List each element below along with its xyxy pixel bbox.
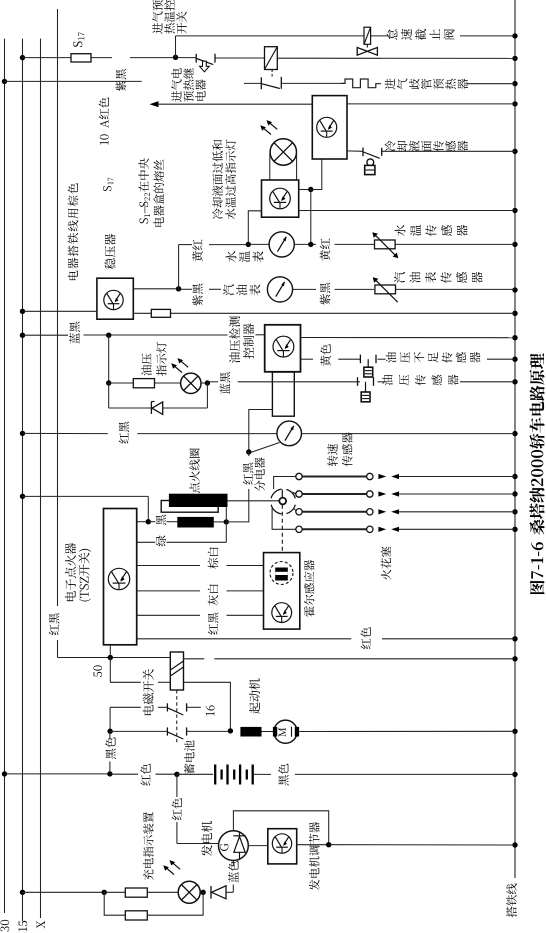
- charge indicator lamp: [163, 860, 200, 903]
- wire heater line with relay contact: [244, 82, 515, 84]
- wire generator to regulator: [248, 845, 267, 847]
- label generator regulator (fa-dian-ji-tiao-jie-qi): [309, 822, 320, 890]
- label S17 (central fuse box): [103, 178, 113, 191]
- wire coil HT output to distributor rotor: [228, 500, 280, 502]
- wire bus X (rail): [40, 39, 42, 918]
- wire generator B+ up and over to output junction: [233, 811, 328, 845]
- wire 10A feed stub from bus 30: [2, 79, 142, 84]
- label yellow-red (huang-hong): [192, 239, 203, 261]
- wire fuel gauge line: [179, 288, 515, 290]
- label black 2 (hei-se): [278, 764, 289, 786]
- label green (lv): [156, 535, 167, 546]
- wire igniter to hall sensor 3 (red-black): [137, 614, 264, 616]
- label 15: [19, 921, 28, 931]
- wire tach slant to distributor junction: [246, 443, 279, 455]
- label 30: [0, 920, 9, 932]
- label yellow-red 2 inline (huang-hong): [320, 238, 331, 260]
- wire ignition switch to ground rail (with gap): [184, 658, 516, 660]
- label electronic igniter TSZ (2 lines): [65, 543, 91, 602]
- distributor rotor: [279, 498, 286, 505]
- wire K2 right to junction and K1: [299, 159, 322, 244]
- relay contact of preheat relay: [261, 77, 281, 89]
- wire bus 15 (rail): [22, 39, 24, 921]
- label solenoid switch (dian-ci-kai-guan): [143, 669, 154, 715]
- wire oil lamp line through plug to oil pressure sensor: [207, 381, 515, 383]
- wire battery junction down to generator (red): [177, 774, 219, 843]
- label speed sensor (2 lines): [327, 432, 352, 466]
- label purple-black 3 inline (zi-hei): [320, 283, 331, 305]
- ignition coil body (outlined): [161, 501, 218, 513]
- label 50: [93, 665, 102, 677]
- solenoid contact 2 on starter feed: [107, 727, 230, 739]
- wire battery line with inline label red (hong-se): [110, 772, 213, 777]
- dashed actuation link relay to contact: [271, 70, 273, 79]
- wire igniter to hall sensor 1 (brown-white): [137, 565, 264, 567]
- hall amplifier symbol: [272, 603, 292, 623]
- wire lamp to diode junction: [200, 890, 206, 895]
- wire controller output B (yellow) to oil-low sensor: [301, 358, 516, 360]
- caption: Fig 7-1-6 Santana 2000 circuit diagram: [529, 353, 544, 594]
- label oil pressure indicator lamp (2 lines): [141, 342, 166, 376]
- lamp socket wires to monitor unit: [270, 153, 297, 180]
- generator G with diode: [219, 831, 249, 861]
- solenoid contact 1 with terminal 16: [110, 703, 201, 731]
- spark plug wire 3: [294, 509, 515, 516]
- wire water temp gauge line: [179, 242, 515, 247]
- wire starter jog from switch: [184, 682, 231, 731]
- label S1-S22 are fuses in central electric box (2 lines): [138, 158, 164, 226]
- label spark plugs (huo-hua-sai): [381, 546, 392, 580]
- wire green line from igniter: [137, 522, 227, 542]
- label black (hei): [156, 515, 166, 526]
- wire red-black down to ignition coil: [248, 452, 250, 523]
- spark plug wire 1: [274, 473, 515, 489]
- wire lamp to junction dot: [201, 380, 210, 385]
- wire controller output A to ground rail: [301, 337, 516, 339]
- indicator lamp coolant low / temp high: [260, 120, 296, 165]
- wire controller plug jog down to distributor line: [249, 410, 273, 453]
- label idle cutoff valve (dai-su-jie-zhi-fa): [387, 29, 455, 40]
- wire regulator output to ground rail: [297, 842, 515, 847]
- wire idle cutoff valve line: [176, 35, 516, 37]
- starter motor M: [262, 720, 516, 743]
- label intake manifold preheater: [385, 79, 468, 90]
- ignition coil primary winding (black bar): [169, 494, 228, 507]
- label purple-black 2 (zi-hei): [192, 284, 203, 306]
- dashed distributor shaft axis: [281, 490, 283, 553]
- label yellow (huang-se): [320, 344, 331, 366]
- label battery (xu-dian-chi): [184, 740, 195, 774]
- resistor 1 of charge indicator: [125, 888, 178, 897]
- ignition switch box with slashes: [170, 652, 183, 690]
- relay coil of intake preheat relay: [265, 47, 278, 70]
- label black (hei-se): [105, 737, 116, 759]
- fuel gauge: [267, 277, 292, 302]
- wire from junction down and right into switch (gap at label): [110, 658, 170, 683]
- label coolant level too low and water temp too high indicator lamp (2 lines): [212, 140, 236, 220]
- label intake preheat temp control switch (3 lines): [152, 0, 187, 34]
- oil pressure detect controller box: [265, 325, 301, 372]
- wire coil secondary to junction: [214, 507, 229, 525]
- label 10 A red (10A hong-se): [99, 97, 109, 144]
- wire battery to ground rail with label black: [253, 773, 515, 775]
- label water temp gauge (shui-wen-biao): [226, 251, 264, 262]
- wire bus 30 (rail): [4, 39, 6, 913]
- connector plug under controller: [272, 372, 294, 416]
- water temp sensor (variable resistor): [372, 232, 398, 258]
- label starter (qi-dong-ji): [249, 678, 260, 713]
- electronic igniter box: [104, 509, 137, 645]
- label use brown for appliance ground wires: [68, 183, 79, 280]
- wire stabilizer output to gauges junction: [133, 245, 181, 292]
- label red 2 (hong-se): [172, 798, 182, 820]
- junction bus50 to ignition switch: [108, 645, 113, 660]
- junction starter feed: [228, 728, 233, 733]
- relay unit K coolant level/temp monitor: [312, 96, 347, 159]
- label fuel gauge (qi-you-biao) inline: [223, 284, 261, 295]
- label red (hong-se) on igniter ground line: [360, 627, 370, 649]
- label red (hong-se): [140, 764, 150, 786]
- label oil pressure insufficient sensor: [386, 352, 481, 363]
- tachometer gauge: [277, 421, 302, 446]
- arrow continuation to coolant-monitor relay (10A red wire): [150, 101, 516, 107]
- intake preheat temperature control switch contact: [196, 54, 215, 72]
- wire bus15 to stabilizer: [20, 309, 97, 314]
- voltage stabilizer box: [97, 278, 133, 319]
- voltage regulator box: [268, 829, 297, 864]
- label S17: [73, 32, 84, 47]
- wire vertical with inline label black (hei-se): [107, 731, 112, 776]
- wire igniter terminal to coil (black): [137, 519, 178, 524]
- label X: [37, 921, 45, 929]
- resistor 2 parallel loop: [104, 892, 203, 920]
- label intake electric preheat relay (3 lines): [171, 68, 206, 102]
- wire bus 50 (rail with inline label): [58, 9, 171, 658]
- label hall sensor (huo-er-gan-ying-qi): [304, 560, 315, 617]
- label voltage stabilizer (wen-ya-qi): [105, 234, 116, 269]
- junction dots on ground rail: [512, 33, 517, 848]
- resistor of oil pressure lamp: [106, 379, 181, 388]
- label ignition coil (dian-huo-xian-quan): [189, 448, 200, 493]
- water temperature gauge: [269, 232, 294, 257]
- spark plug wire 4: [272, 507, 515, 533]
- wire bus15 red-black line to tachometer: [20, 431, 515, 436]
- dashed solenoid actuation line: [176, 690, 178, 743]
- oil pressure indicator lamp: [171, 358, 201, 393]
- label ground wire da-tie-xian: [506, 883, 517, 917]
- hall sensor box: [264, 553, 300, 630]
- wire stabilizer lower output with resistor to ground rail: [133, 312, 515, 314]
- label 16: [206, 705, 215, 715]
- label fuel gauge sensor: [394, 272, 483, 283]
- oil pressure sensor: [358, 377, 374, 402]
- wire K2 output to ground rail: [299, 210, 515, 212]
- label red-black inline (hong-hei): [119, 422, 129, 444]
- diode to generator (blue): [211, 861, 233, 899]
- wire bus15 to charge indicator: [20, 890, 126, 895]
- label generator (fa-dian-ji): [201, 821, 212, 856]
- oil pressure insufficient sensor: [360, 355, 376, 377]
- wire bus15 blue-black line to oil controller: [20, 333, 265, 338]
- spark plug wire 2: [292, 491, 515, 497]
- label red-black (hong-hei) on bus 50: [49, 613, 59, 635]
- wire K2 left jog to water gauge line: [246, 211, 262, 247]
- wire S17 fuse line from bus 15: [20, 55, 515, 60]
- label wire colors red-black grey-white brown-white: [208, 547, 219, 634]
- label charge indicator device (chong-dian-zhi-shi-zhuang-zhi): [143, 812, 154, 880]
- zener diode parallel to oil lamp: [109, 383, 208, 414]
- fuse S17: [71, 54, 91, 62]
- label purple-black (zi-hei): [116, 69, 127, 91]
- valve symbol (bowtie) of idle cutoff valve: [357, 44, 377, 55]
- solenoid of idle cutoff valve: [364, 27, 371, 44]
- wire igniter bottom line to ground rail (inline label red): [137, 638, 515, 640]
- wire bus15 black wire to igniter/coil: [20, 494, 149, 522]
- resistor on stabilizer line: [151, 309, 170, 317]
- battery cells: [215, 765, 253, 785]
- label blue (lan-se): [228, 861, 238, 883]
- label red-black (distributor area): [243, 463, 253, 485]
- relay unit K2 (warning control): [262, 180, 299, 217]
- ignition coil secondary winding (black bar): [177, 517, 214, 528]
- heater element of intake manifold preheater (zigzag): [341, 79, 381, 88]
- wire ground rail (da-tie-xian): [514, 0, 516, 878]
- starter cable (black bar): [240, 727, 261, 737]
- coolant level sensor switch (float type): [363, 148, 382, 175]
- hall element (dashed circle with magnet): [270, 562, 293, 585]
- fuel sensor (variable resistor): [373, 277, 398, 302]
- label distributor (fen-dian-qi): [254, 457, 265, 491]
- label blue-black (lan-hei): [69, 322, 80, 344]
- junction oil lamp branch: [106, 333, 111, 384]
- wire bus30 to battery junction (black): [2, 771, 110, 776]
- junction of temp-switch branch: [173, 36, 178, 60]
- distributor cap arcs: [271, 489, 295, 514]
- label coolant level sensor: [385, 141, 468, 152]
- label water temp sensor: [395, 225, 468, 236]
- label oil pressure detect controller (2 lines): [229, 316, 254, 363]
- label oil pressure sensor: [382, 375, 458, 386]
- label blue-black 2: [220, 372, 231, 394]
- wire coolant level sensor line: [347, 150, 515, 152]
- wire igniter to hall sensor 2 (grey-white): [137, 590, 264, 592]
- wire red-black from tach line joins coil junction: [226, 521, 249, 523]
